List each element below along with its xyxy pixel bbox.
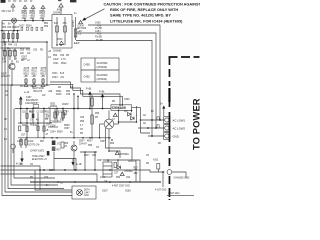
wire grid verticals [21,94,78,138]
svg-text:F5+5B: F5+5B [95,28,102,30]
svg-text:D501: D501 [56,91,62,93]
wire left loop 3 [8,48,64,189]
svg-text:R51: R51 [30,112,35,114]
node AC3 [31,5,35,12]
flag JH03 inside CN544 [57,39,64,44]
wire cluster net [103,160,140,182]
svg-text:(C440? 160?): (C440? 160?) [30,151,44,153]
svg-text:R511: R511 [32,71,38,73]
capacitor C501 [3,31,5,42]
svg-text:1/4W: 1/4W [28,141,34,143]
connector pin chassis [167,170,172,175]
svg-text:C450: C450 [95,23,101,25]
svg-text:+5V: +5V [60,77,65,79]
svg-text:R50: R50 [110,143,115,145]
svg-text:4-A07 GN2: 4-A07 GN2 [168,192,180,195]
wire rail A1 [1,30,21,32]
svg-text:C51: C51 [22,112,27,114]
transistor Q504 [71,141,77,170]
wire board outline solid at connector [168,88,170,102]
label 4-A07 GND [167,192,194,195]
svg-text:R5?: R5? [57,150,62,152]
wire bridge left drop [100,124,106,138]
svg-text:C507: C507 [100,141,106,143]
svg-text:C50: C50 [80,117,85,119]
svg-text:C49: C49 [2,62,7,64]
svg-text:D5?: D5? [124,111,129,113]
svg-text:1W?: 1W? [30,18,35,20]
flag D5566A [115,151,129,156]
svg-text:4CH7002: 4CH7002 [97,61,109,65]
svg-text:C51: C51 [58,112,63,114]
svg-text:1W?: 1W? [22,18,27,20]
extra junction dots [1,30,132,152]
junction dots on AC bus [24,20,44,22]
svg-text:R50: R50 [26,50,31,52]
svg-text:B511: B511 [32,73,38,75]
svg-text:+5V: +5V [97,25,102,27]
svg-text:CHASSIS GND: CHASSIS GND [174,177,190,180]
svg-text:TO POWER: TO POWER [190,98,200,150]
wire chassis drop [162,172,164,187]
junction dots connector rows [147,119,161,137]
ground arrow mid [71,159,81,167]
svg-text:AC LOW2: AC LOW2 [173,127,186,131]
label Q504 texts [79,141,93,146]
svg-text:P+BL: P+BL [86,89,92,91]
svg-text:C523: C523 [52,77,58,79]
svg-text:B+?: B+? [54,23,59,25]
table fuse cross-reference [81,58,119,82]
svg-text:+5B: +5B [32,76,37,78]
wire net AC LOW1 [88,25,160,120]
resistor R505 [4,48,7,60]
flag under box [112,113,117,121]
svg-text:3V7B: 3V7B [41,68,47,70]
resistor pack bottom left [52,141,62,152]
svg-text:(470042): (470042) [97,77,108,81]
wire rail B2 [1,84,51,86]
label C450 stack [74,23,102,45]
label clutter group [2,13,161,187]
label D501 cluster [50,103,69,134]
svg-text:4B: 4B [158,143,161,145]
svg-text:B4L/MW/97: B4L/MW/97 [26,100,39,102]
grid labels [17,112,51,143]
node AC2 [23,5,27,12]
wire top cutoff text smudge [1,0,77,3]
svg-text:R509: R509 [57,132,63,134]
svg-text:AC: AC [143,114,147,117]
component clutter marks [20,27,159,128]
svg-text:AC: AC [143,122,147,125]
resistor array labels right of Q502 [24,68,30,78]
svg-text:R52: R52 [53,55,58,57]
node P+BL a [86,89,92,109]
svg-text:C455: C455 [84,63,91,67]
svg-text:G507: G507 [102,191,108,193]
node +5V top right [160,104,165,117]
box degaussing [72,186,96,199]
svg-text:B512: B512 [41,73,47,75]
svg-text:4CH7003: 4CH7003 [97,73,109,77]
svg-text:JH03: JH03 [57,39,63,41]
svg-text:1+1B: 1+1B [76,164,82,166]
bridge rectifier D521 [100,110,119,151]
svg-text:GND: GND [173,135,179,139]
svg-text:+B: +B [134,169,137,171]
svg-text:1/4W: 1/4W [53,59,59,61]
wire rail B1 [1,47,31,49]
wire left loop 1 [2,31,72,196]
svg-text:CN544: CN544 [53,13,61,15]
svg-text:3V7B: 3V7B [24,68,30,70]
capacitor C503a [14,48,17,60]
capacitor C446 [61,142,64,148]
svg-text:C521: C521 [53,63,59,65]
svg-text:R507: R507 [57,122,63,124]
node P+BL b [99,92,105,109]
svg-text:C50: C50 [12,51,17,53]
svg-text:F5+5B: F5+5B [96,40,103,42]
svg-text:HEAT SINK: HEAT SINK [32,87,44,90]
svg-text:1W?: 1W? [40,18,45,20]
capacitor C514 [19,126,21,131]
svg-text:CN5665: CN5665 [53,51,62,53]
svg-text:224+9?: 224+9? [79,144,87,146]
svg-text:C506: C506 [124,99,130,101]
svg-text:C50: C50 [44,177,49,179]
wire main bus [15,108,111,110]
wire chassis right [172,172,186,178]
svg-text:C51: C51 [92,155,97,157]
capacitor C515 [26,126,28,132]
resistor R501 [7,31,9,42]
resistor dark R448 [47,151,50,156]
svg-text:R50: R50 [66,91,71,93]
svg-text:C44: C44 [33,125,38,127]
wire Q502 emitter drop [11,70,13,85]
junction dots rail A [3,30,18,43]
svg-text:F5+5B: F5+5B [95,37,102,39]
svg-text:4B: 4B [4,119,7,121]
junction dots cluster [107,159,119,161]
flag JH02 above CN544 [57,4,64,15]
fuse F501 [11,18,16,23]
wire AC input bus [2,20,52,22]
junction dots main bus [20,108,104,110]
svg-text:A101: A101 [153,159,159,162]
wire row AC LOW1 [141,119,165,121]
svg-text:C506A09: C506A09 [112,106,126,110]
svg-text:R44: R44 [22,125,27,127]
capacitor C544 inside CN544 [54,17,59,45]
resistor R513 [32,114,35,119]
svg-text:LITTELFUSE INK. FOR IC434 (4EK: LITTELFUSE INK. FOR IC434 (4EKT609) [110,19,183,23]
svg-text:R50: R50 [44,26,49,28]
svg-text:CAUTION : FOR CONTINUED PROTEC: CAUTION : FOR CONTINUED PROTECTION AGAIN… [104,2,201,6]
resistor R516 [37,126,39,130]
svg-text:LF544: LF544 [73,20,75,27]
capacitor C520 [54,109,65,124]
wire flag stems to bus [25,18,43,21]
wire drop from bus to rail A [2,21,14,31]
wire board outline dashed vertical [169,57,171,200]
resistor R503 [16,31,18,42]
svg-text:SAME TYPE NO. 461201 MFD. BY: SAME TYPE NO. 461201 MFD. BY [110,14,171,18]
svg-text:P+BL: P+BL [99,92,105,94]
capacitor C509 [157,164,160,173]
svg-text:R50: R50 [88,145,93,147]
svg-text:+B2: +B2 [48,91,53,93]
svg-text:JH04: JH04 [52,73,58,75]
connector pin P1 [164,117,170,124]
svg-text:4.7K: 4.7K [61,59,66,61]
svg-text:R50: R50 [80,121,85,123]
flag D5566A b [120,170,133,176]
svg-text:D50: D50 [64,143,69,145]
wire rail mid2 [18,122,52,124]
connector pin P3 [164,133,170,140]
svg-text:(470042): (470042) [97,65,108,69]
wire bottom mid net [54,152,97,171]
svg-text:R51: R51 [45,112,50,114]
wire staircase upper [50,82,120,105]
flag near heat sink [19,96,23,108]
svg-text:A546: A546 [56,93,62,96]
svg-text:R44: R44 [8,45,13,47]
label clutter col2 [22,107,51,136]
svg-text:+B: +B [46,130,49,132]
svg-text:A5467+: A5467+ [128,160,137,163]
svg-text:B+5: B+5 [60,73,65,75]
svg-text:C44: C44 [2,45,7,47]
svg-text:+5B: +5B [24,76,29,78]
svg-text:C506A: C506A [50,105,57,108]
svg-text:D5566A: D5566A [121,153,130,156]
svg-text:R517: R517 [84,155,90,157]
svg-text:4A: 4A [2,23,5,26]
svg-text:C44?: C44? [84,192,90,194]
resistor R502 labels [22,11,28,20]
svg-text:C452: C452 [84,75,91,79]
svg-text:GN2: GN2 [84,195,89,197]
svg-text:R5?: R5? [40,141,45,143]
svg-text:D50?: D50? [79,141,85,143]
wire staircase lower [50,84,122,105]
wire row GND [148,135,164,137]
node AC4 [41,5,45,12]
svg-text:R510: R510 [24,71,30,73]
svg-text:D50: D50 [20,50,25,52]
capacitor C512 [26,114,28,119]
resistor R530 vertical [91,109,94,139]
svg-text:C454: C454 [95,31,101,33]
label caution small [16,145,47,166]
svg-text:RISK OF FIRE, REPLACE ONLY WIT: RISK OF FIRE, REPLACE ONLY WITH [110,8,178,12]
svg-text:R508: R508 [64,125,70,127]
svg-text:4B: 4B [58,87,61,89]
svg-text:1/4W: 1/4W [100,177,106,179]
connector CN544 [52,13,72,53]
svg-text:JH02: JH02 [57,10,63,12]
svg-text:4EK?: 4EK? [87,141,93,143]
node AC1 [11,4,15,11]
fuse IC434 4EKT609 [77,20,87,35]
wire cluster vertical [135,160,137,182]
lamp L501 [77,190,91,198]
ground flags under resistor array [24,78,28,86]
junction dots diode net [118,119,142,123]
svg-text:GO??1-2%: GO??1-2% [28,145,40,147]
svg-text:3V7B: 3V7B [32,68,38,70]
svg-text:AC LOW1: AC LOW1 [173,119,186,123]
label cluster bits [104,168,138,184]
svg-text:D501: D501 [50,104,56,106]
capacitor C502 [12,31,14,42]
wire diode net [119,106,151,133]
wire right side vertical x47 [46,42,48,85]
resistor R544 inside CN544 [63,17,68,45]
wire rail A2 [1,41,48,43]
arrow down bottom left [20,151,23,163]
wire net GND run [76,41,152,137]
label bottom right texts [102,186,131,193]
connector pin P2 [164,125,170,132]
svg-text:D5566A: D5566A [125,170,134,173]
resistor H501 vertical [91,95,94,109]
svg-text:B50: B50 [44,23,49,25]
resistor R517 [43,126,45,131]
svg-text:4B: 4B [36,120,39,122]
svg-text:C5?: C5? [114,173,119,175]
svg-text:C5?: C5? [21,135,26,137]
label HEAT SINK [24,87,44,105]
svg-text:+5V: +5V [97,34,102,36]
svg-text:R52: R52 [116,177,121,179]
wire net AC LOW2 [76,33,156,128]
svg-text:A5467: A5467 [62,103,69,106]
svg-text:C50: C50 [66,94,71,96]
wire left loop 2 [5,42,72,192]
small circle component left [11,144,16,153]
svg-text:C52: C52 [60,55,65,57]
IC501 box [97,160,112,177]
wire bottom bus 3 [1,174,98,182]
wire rail mid3 [18,137,111,139]
svg-text:4B: 4B [21,60,24,62]
wire arrow from caution to IC434 [82,9,105,21]
svg-text:C608: C608 [125,191,131,193]
transistor Q502 [9,60,15,70]
svg-text:4-107 GN2: 4-107 GN2 [155,190,167,192]
svg-text:C50?: C50? [64,128,70,130]
wire bottom bus 1 [1,166,41,190]
svg-text:22K: 22K [20,53,25,55]
svg-text:C52: C52 [126,177,131,179]
wire bottom thick bus [30,181,161,183]
svg-text:D507: D507 [22,57,28,59]
junction dots bottom buses [39,169,164,173]
svg-text:C497: C497 [26,97,32,99]
svg-text:R50: R50 [2,51,7,53]
svg-text:+5B: +5B [41,76,46,78]
label CAUTION text block [104,2,202,23]
svg-text:ELECTRIC +5: ELECTRIC +5 [32,159,47,161]
svg-text:R512: R512 [41,71,47,73]
wire board outline dashed horizontal [169,56,200,58]
diode D522 [128,113,132,117]
svg-text:D5?4: D5?4 [84,190,90,192]
wire left loop 4 [11,85,58,185]
svg-text:C50: C50 [33,50,38,52]
wire corner from bridge [106,138,133,160]
junction dots bottom mid [43,151,96,171]
svg-text:4-R07 C507 GN2: 4-R07 C507 GN2 [112,186,130,188]
svg-text:C50?: C50? [97,160,103,162]
capacitor C506A09 box [111,105,132,111]
wire vertical x35 drop [35,170,72,190]
svg-text:TAKE USE?: TAKE USE? [32,155,45,158]
diode D523 [131,117,135,121]
svg-text:4B: 4B [20,86,23,88]
capacitor C445 pair [20,138,28,148]
svg-text:C504: C504 [50,132,56,134]
resistor R506 [9,48,12,60]
inductor LF544 [73,17,77,40]
wire bottom bus 2 [1,170,165,172]
capacitor C530 [114,163,117,168]
wire left loop 5 [14,109,55,179]
label clutter col3 [2,23,74,98]
wire mid short rail [48,126,58,128]
svg-text:R522: R522 [61,63,67,65]
svg-text:L+10: L+10 [24,92,30,94]
svg-text:+B: +B [48,51,51,53]
svg-text:B510: B510 [24,73,30,75]
diode D524 [117,166,121,170]
wire row AC LOW2 [138,127,164,129]
svg-text:D50: D50 [95,113,100,115]
svg-text:250 V AC 1?: 250 V AC 1? [2,10,16,13]
svg-text:B04-073: B04-073 [34,91,43,93]
junction dots rail mid [20,122,91,138]
svg-text:224+97?: 224+97? [1,76,11,78]
junction dots thick bus [57,181,131,183]
